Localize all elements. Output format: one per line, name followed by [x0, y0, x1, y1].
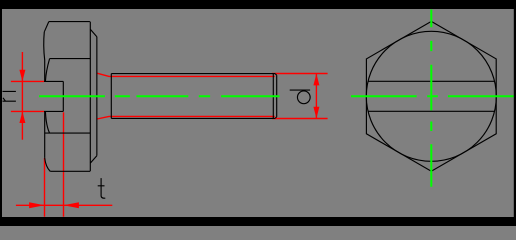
- dimension n: dimension line vertical: [21, 52, 23, 140]
- slot: top edge (side view): [44, 80, 63, 82]
- bolt head: bottom edge: [50, 170, 90, 172]
- shaft: bottom edge: [111, 117, 275, 119]
- dimension d: dimension line vertical: [315, 74, 317, 119]
- shaft: end chamfer bottom diagonal: [275, 117, 277, 119]
- bolt head: lower chamfer arc on face: [45, 111, 49, 133]
- arrowhead n top (points down): [19, 70, 25, 82]
- dimension d: extension line top: [272, 73, 328, 75]
- thread minor diameter line bottom: [97, 116, 275, 119]
- shaft: end chamfer top diagonal: [275, 74, 277, 76]
- slot bottom line (end view): [368, 110, 494, 112]
- bolt head: right face vertical: [96, 37, 98, 156]
- bolt head: lower interior line: [45, 132, 90, 134]
- slot: bottom edge (side view): [44, 110, 63, 112]
- shaft: end chamfer vertical: [272, 74, 274, 119]
- slot top line (end view): [368, 80, 494, 82]
- bolt head: upper chamfer arc on face: [45, 59, 49, 82]
- arrowhead t left (points right): [29, 202, 44, 208]
- bolt head: top edge: [49, 21, 90, 23]
- centerline end view horizontal: [351, 95, 514, 97]
- dimension n: extension line top (slot top): [11, 80, 44, 82]
- dimension d: extension line bottom: [272, 118, 328, 120]
- dimension t: dimension line horizontal: [16, 204, 112, 206]
- bolt head: bottom-left corner arc: [45, 158, 51, 171]
- centerline side view axis: [39, 95, 280, 97]
- shaft: top edge: [111, 73, 275, 75]
- dimension t: extension line right: [63, 112, 65, 216]
- chamfer circle (end view): [366, 31, 496, 161]
- dimension n: extension line bottom (slot bottom): [11, 110, 44, 112]
- border bottom: [0, 217, 516, 226]
- bolt head: bottom-right chamfer diagonal: [90, 156, 97, 163]
- bolt head: top-right chamfer diagonal: [90, 29, 97, 36]
- arrowhead d top (points up): [313, 74, 319, 86]
- border right: [514, 0, 516, 226]
- arrowhead t right (points left): [64, 202, 79, 208]
- hexagon (end view): [366, 21, 496, 171]
- bolt head: upper interior line: [50, 58, 91, 60]
- shaft: end vertical: [276, 75, 278, 117]
- arrowhead n bottom (points up): [19, 111, 25, 123]
- shaft: thread runout vertical: [110, 74, 112, 119]
- thread minor diameter line top: [97, 73, 275, 76]
- label n: [3, 91, 16, 101]
- slot: bottom vertical (side view): [62, 81, 64, 111]
- bolt head: left face lower segment: [44, 111, 46, 157]
- label t: [98, 178, 106, 198]
- bolt head: top-left chamfer diagonal: [44, 22, 49, 32]
- border top: [0, 0, 516, 9]
- border left: [0, 0, 2, 226]
- centerline end view vertical: [430, 10, 432, 187]
- bolt head: left face upper segment: [43, 32, 46, 82]
- label d: [290, 89, 310, 91]
- arrowhead d bottom (points down): [313, 107, 319, 119]
- bolt head: hexagon inner edge vertical: [89, 22, 91, 172]
- dimension t: extension line left: [44, 158, 46, 217]
